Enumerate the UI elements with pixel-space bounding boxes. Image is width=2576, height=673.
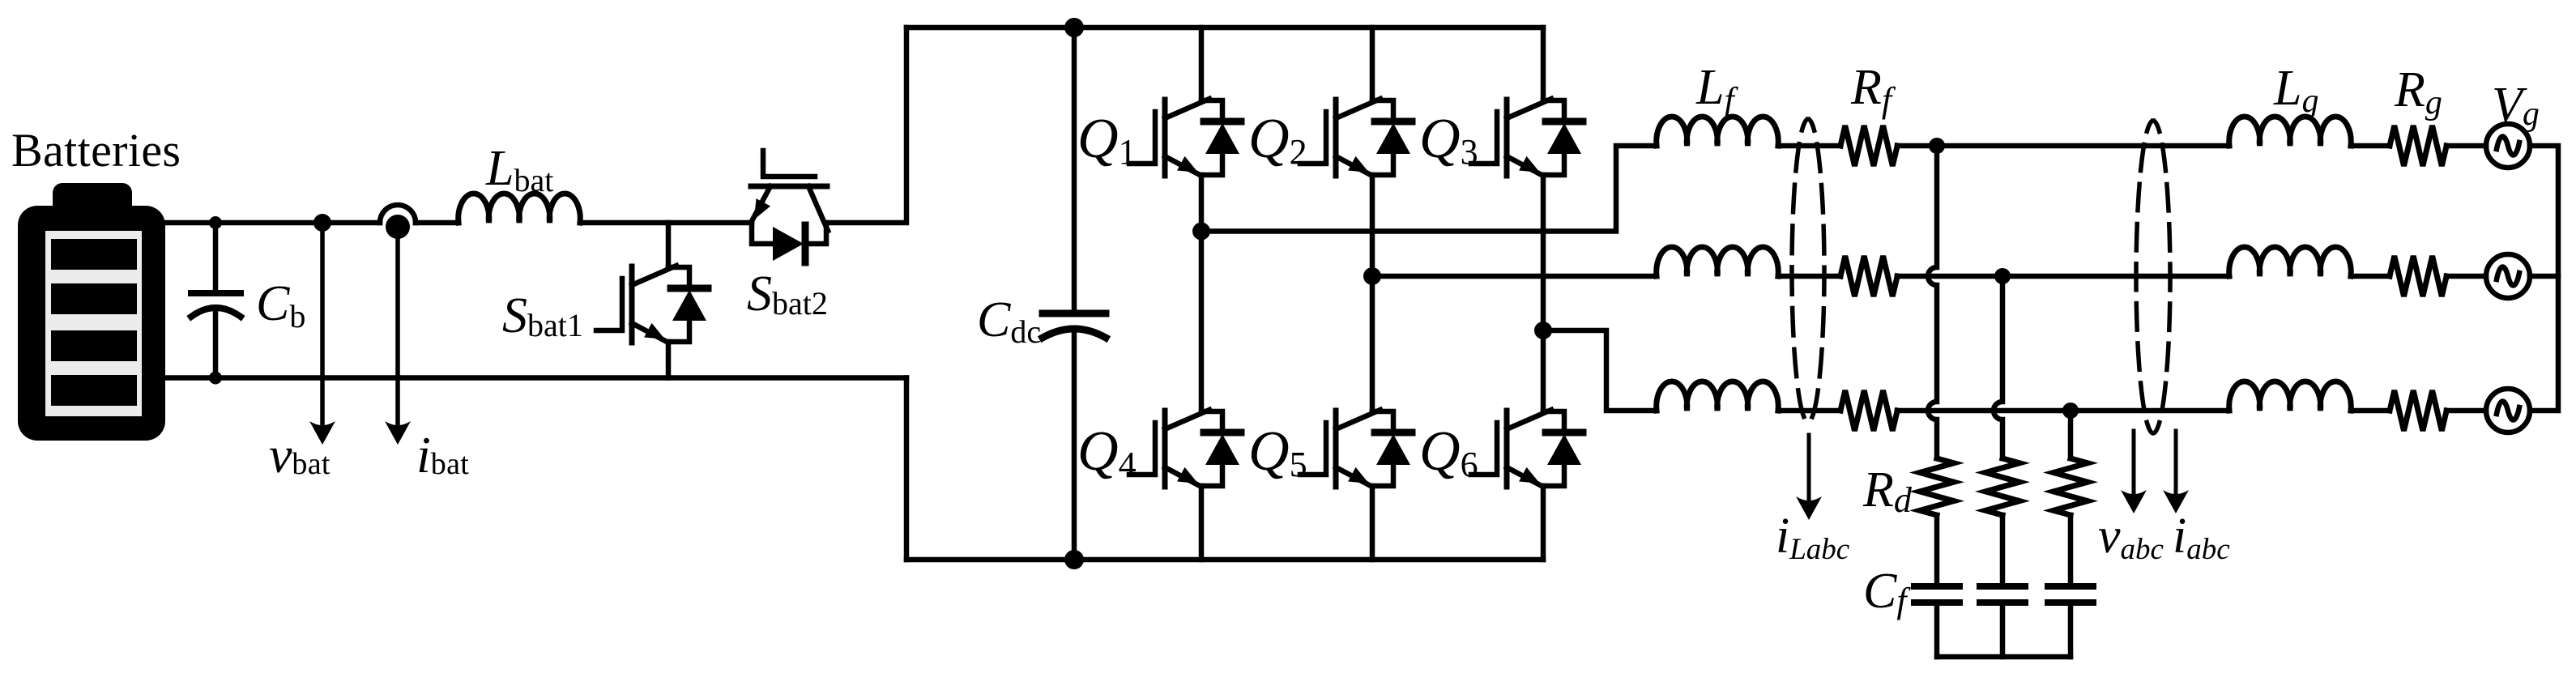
- wire phase C to filter: [1543, 330, 1657, 411]
- node filter C: [2062, 403, 2079, 419]
- wire Rf to node C: [1897, 408, 2071, 414]
- wire node B to Lg: [2002, 274, 2229, 279]
- inductor Lf phase C: [1657, 381, 1779, 411]
- node filter B: [1994, 268, 2011, 284]
- shunt branch B vertical: [1994, 276, 2002, 458]
- inductor Lf phase B: [1657, 247, 1779, 276]
- wire Rg-Vg phase A: [2446, 143, 2486, 149]
- wire Rd to Cf branch C: [2068, 515, 2074, 583]
- resistor Rg phase C: [2390, 390, 2446, 431]
- wire Lf-Rf phase A: [1778, 143, 1840, 149]
- transistor Q1: [1129, 28, 1241, 232]
- arrow vbat: [309, 223, 335, 445]
- node phase B: [1363, 267, 1381, 285]
- wire Lg-Rg phase C: [2351, 408, 2390, 414]
- resistor Rd branch C: [2054, 458, 2088, 515]
- inductor Lg phase B: [2229, 247, 2352, 276]
- wire node C to Lg: [2071, 408, 2229, 414]
- inductor Lbat: [458, 194, 581, 223]
- capacitor Cb: [191, 216, 241, 385]
- resistor Rg phase B: [2390, 256, 2446, 296]
- wire bottom left riser: [904, 378, 910, 560]
- capacitor Cf branch A: [1914, 586, 1960, 603]
- wire Lf-Rf phase B: [1778, 274, 1840, 279]
- arrow vabc: [2121, 431, 2147, 513]
- arrow ibat: [385, 227, 411, 445]
- node phase C: [1534, 322, 1552, 339]
- wire node A to Lg: [1937, 143, 2229, 149]
- dc bus bottom: [906, 557, 1543, 563]
- current sensor ibat: [380, 205, 416, 239]
- transistor Q4: [1129, 232, 1241, 560]
- wire Rg-Vg phase C: [2446, 408, 2486, 414]
- source Vg phase A: [2486, 124, 2530, 168]
- resistor Rf phase C: [1840, 390, 1897, 431]
- wire Sbat2 to dc bus: [826, 28, 906, 223]
- wire Lg-Rg phase B: [2351, 274, 2390, 279]
- neutral rail: [1937, 654, 2071, 660]
- shunt branch C vertical: [2068, 411, 2074, 458]
- transistor Sbat1: [596, 223, 708, 378]
- wire phase B to filter: [1372, 274, 1657, 279]
- resistor Rf phase A: [1840, 126, 1897, 166]
- wire Rd to Cf branch A: [1934, 515, 1940, 583]
- transistor Q3: [1471, 28, 1583, 330]
- transistor Sbat2: [751, 151, 828, 262]
- wire Lbat to Sbat2: [580, 220, 752, 226]
- measurement ellipse iLabc: [1792, 119, 1824, 422]
- wire Lf-Rf phase C: [1778, 408, 1840, 414]
- inductor Lg phase A: [2229, 117, 2352, 146]
- resistor Rg phase A: [2390, 126, 2446, 166]
- wire battery top: [162, 220, 380, 226]
- wire Rg-Vg phase B: [2446, 274, 2486, 279]
- resistor Rd branch A: [1920, 458, 1954, 515]
- capacitor Cf branch B: [1980, 586, 2025, 603]
- arrow iLabc: [1796, 435, 1822, 520]
- transistor Q5: [1300, 276, 1412, 560]
- wire Rf to node A: [1897, 143, 1937, 149]
- transistor Q2: [1300, 28, 1412, 276]
- capacitor Cf branch C: [2048, 586, 2093, 603]
- node vbat: [313, 214, 331, 232]
- wire after sensor: [416, 220, 458, 226]
- battery icon: [18, 183, 165, 441]
- resistor Rf phase B: [1840, 256, 1897, 296]
- wire Vg B to bus: [2530, 274, 2558, 279]
- dc bus top: [906, 25, 1543, 31]
- grid bus right: [2530, 146, 2558, 411]
- node filter A: [1929, 138, 1945, 154]
- resistor Rd branch B: [1985, 458, 2019, 515]
- wire Cf to rail A: [1934, 606, 1940, 657]
- capacitor Cdc: [1043, 18, 1106, 569]
- wire battery bottom: [162, 375, 906, 381]
- wire Lg-Rg phase A: [2351, 143, 2390, 149]
- inductor Lf phase A: [1657, 117, 1779, 146]
- transistor Q6: [1471, 330, 1583, 560]
- wire Cf to rail C: [2068, 606, 2074, 657]
- shunt branch A vertical: [1928, 146, 1937, 458]
- measurement ellipse vabc iabc: [2136, 121, 2170, 433]
- inductor Lg phase C: [2229, 381, 2352, 411]
- wire Cf to rail B: [2000, 606, 2006, 657]
- arrow iabc: [2163, 431, 2189, 513]
- source Vg phase B: [2486, 254, 2530, 298]
- wire Rd to Cf branch B: [2000, 515, 2006, 583]
- node phase A: [1192, 223, 1210, 241]
- source Vg phase C: [2486, 389, 2530, 432]
- svg-text:Batteries: Batteries: [11, 124, 181, 177]
- wire phase A to filter: [1201, 146, 1657, 232]
- wire Rf to node B: [1897, 274, 2002, 279]
